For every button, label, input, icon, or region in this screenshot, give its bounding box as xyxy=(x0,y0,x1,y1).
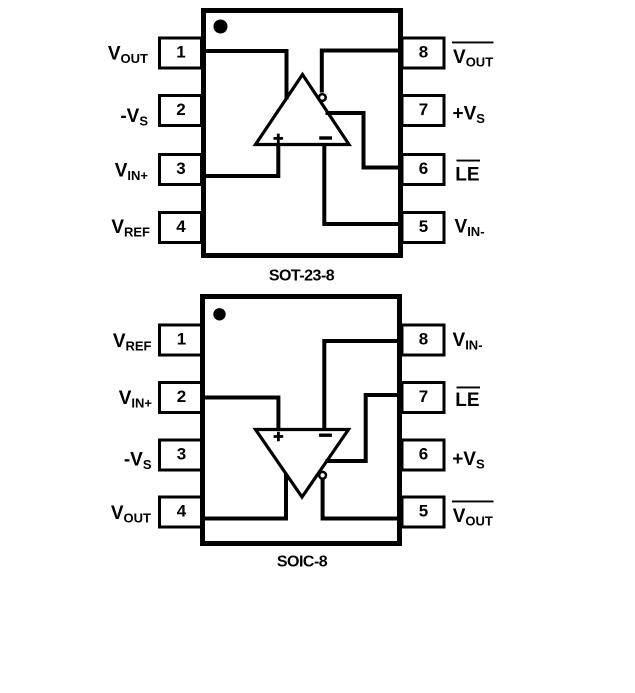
comparator A1 triangle (SOT-23-8) xyxy=(256,75,350,145)
wire pin2 to plus input (SOIC-8) xyxy=(202,398,278,431)
pin 1 box xyxy=(160,38,202,68)
svg-text:4: 4 xyxy=(177,501,187,520)
minus input mark (SOIC-8) xyxy=(319,434,332,437)
pin 2 box (SOIC-8) xyxy=(160,383,202,413)
svg-text:5: 5 xyxy=(419,217,428,236)
pin 3 box xyxy=(160,155,202,185)
net label /VOUT overline (pin 8) xyxy=(452,42,494,44)
svg-text:1: 1 xyxy=(177,329,186,348)
svg-text:LE: LE xyxy=(455,165,479,186)
pin 6 box xyxy=(402,155,444,185)
svg-text:SOT-23-8: SOT-23-8 xyxy=(269,268,335,285)
package outline SOT-23-8 (U1) xyxy=(204,11,401,256)
pin 6 box (SOIC-8) xyxy=(402,440,444,470)
svg-text:VOUT: VOUT xyxy=(108,44,148,67)
svg-text:1: 1 xyxy=(176,43,185,62)
svg-text:7: 7 xyxy=(419,387,428,406)
svg-text:7: 7 xyxy=(419,100,428,119)
package outline SOIC-8 (U2) xyxy=(203,297,400,544)
svg-text:2: 2 xyxy=(177,387,186,406)
pin 4 box xyxy=(160,213,202,243)
svg-text:VIN+: VIN+ xyxy=(115,161,149,184)
minus input mark xyxy=(319,136,332,139)
pin 3 box (SOIC-8) xyxy=(160,440,202,470)
wire pin5 to minus input xyxy=(324,144,401,225)
svg-text:VOUT: VOUT xyxy=(111,503,151,526)
pin 5 box xyxy=(402,213,444,243)
svg-text:8: 8 xyxy=(419,43,428,62)
svg-text:4: 4 xyxy=(176,217,186,236)
pin 8 box xyxy=(402,38,444,68)
pin 2 box xyxy=(160,96,202,126)
svg-text:+VS: +VS xyxy=(452,449,485,472)
wire pin1 to triangle left edge xyxy=(203,51,287,100)
pin 4 box (SOIC-8) xyxy=(160,497,202,527)
plus input mark xyxy=(274,134,284,144)
pin 5 box (SOIC-8) xyxy=(402,497,444,527)
comparator A2 triangle (SOIC-8) xyxy=(256,430,349,498)
pin 8 box (SOIC-8) xyxy=(402,325,444,355)
wire pin8 to inverting output bubble xyxy=(322,51,401,93)
svg-text:6: 6 xyxy=(419,444,428,463)
svg-text:6: 6 xyxy=(419,159,428,178)
plus input mark (SOIC-8) xyxy=(274,432,284,442)
svg-text:5: 5 xyxy=(419,501,428,520)
svg-text:SOIC-8: SOIC-8 xyxy=(277,554,328,571)
net label /LE overline (SOIC pin 7) xyxy=(457,387,481,389)
svg-text:VIN-: VIN- xyxy=(453,330,483,353)
pin 7 box xyxy=(402,96,444,126)
svg-text:VOUT: VOUT xyxy=(453,47,493,70)
pin 7 box (SOIC-8) xyxy=(402,383,444,413)
inverting output bubble xyxy=(319,94,326,101)
svg-text:2: 2 xyxy=(176,100,185,119)
wire pin5 to inverting output bubble (SOIC-8) xyxy=(323,479,400,519)
pin 1 marker dot (SOIC-8) xyxy=(213,308,225,320)
net label /LE overline (pin 6) xyxy=(457,160,481,162)
svg-text:3: 3 xyxy=(177,444,186,463)
svg-text:VIN+: VIN+ xyxy=(119,388,153,411)
svg-text:LE: LE xyxy=(455,390,479,411)
wire pin7 latch enable to triangle right edge (SOIC-8) xyxy=(326,395,401,461)
svg-text:+VS: +VS xyxy=(453,104,486,127)
svg-text:-VS: -VS xyxy=(124,450,152,473)
svg-text:VREF: VREF xyxy=(113,331,152,354)
svg-text:VOUT: VOUT xyxy=(453,506,493,529)
wire pin6 latch enable to triangle right edge xyxy=(326,113,402,168)
wire pin3 to plus input xyxy=(203,144,278,177)
pin 1 marker dot (SOT-23-8) xyxy=(214,20,228,34)
svg-text:VREF: VREF xyxy=(111,217,150,240)
wire pin8 to minus input (SOIC-8) xyxy=(324,341,400,430)
wire pin4 to triangle left edge (SOIC-8) xyxy=(202,474,286,519)
inverting output bubble (SOIC-8) xyxy=(319,472,326,479)
svg-text:-VS: -VS xyxy=(120,106,148,129)
pin 1 box (SOIC-8) xyxy=(160,325,202,355)
net label /VOUT overline (SOIC pin 5) xyxy=(452,501,494,503)
svg-text:8: 8 xyxy=(419,329,428,348)
svg-text:VIN-: VIN- xyxy=(455,217,485,240)
svg-text:3: 3 xyxy=(176,159,185,178)
